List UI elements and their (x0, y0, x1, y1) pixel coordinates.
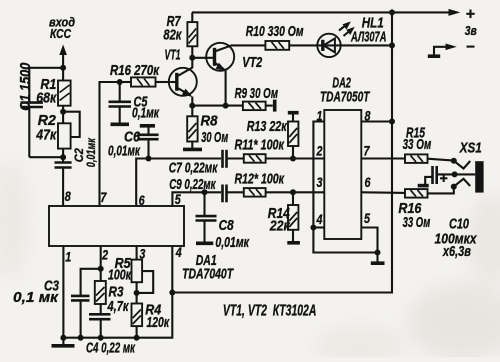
wire DA2 pin 6 to R16 (361, 191, 405, 194)
node B junction (60, 154, 66, 160)
svg-text:АЛ307А: АЛ307А (350, 29, 386, 45)
label C8 0,01mk (215, 218, 249, 251)
plus sign (466, 10, 474, 19)
node DA2 pin4 junction (310, 225, 316, 231)
resistor R3 (95, 281, 106, 314)
resistor R2 (58, 112, 71, 158)
svg-text:КСС: КСС (50, 26, 71, 41)
label C10 value (435, 217, 478, 260)
input label (49, 15, 75, 42)
minus terminal (428, 44, 475, 57)
node pin5 rail junction (375, 250, 381, 256)
label C2 0,01mk (74, 137, 98, 167)
svg-text:120к: 120к (147, 315, 170, 331)
svg-text:R13 22к: R13 22к (247, 119, 287, 135)
label R2 47k (35, 113, 56, 144)
svg-text:TDA7040T: TDA7040T (182, 267, 234, 283)
node R16/C5 junction (117, 79, 123, 85)
wire node A to C1 branch (29, 68, 63, 102)
node R1/R2 junction (60, 109, 66, 115)
R5 tap wire (137, 271, 154, 293)
node C3 rail junction (78, 335, 84, 341)
wire pin4 to bottom rail (313, 228, 377, 253)
resistor R5 (132, 246, 143, 304)
label R1 68k (36, 77, 57, 107)
IC DA2 box (324, 110, 361, 239)
svg-text:R3: R3 (109, 284, 124, 300)
node C8 junction (202, 189, 208, 195)
label R8 30 Om (201, 114, 229, 147)
R2 tap wire (63, 112, 80, 137)
svg-text:4: 4 (316, 211, 323, 227)
resistor R9 (243, 102, 273, 111)
jack tip contact spring (454, 161, 470, 169)
wire DA1 pin 5 to C9 (172, 192, 221, 206)
svg-text:0,1 мк: 0,1 мк (13, 290, 59, 306)
capacitor C2 (55, 157, 72, 206)
svg-text:4,7к: 4,7к (107, 299, 129, 315)
input arrow (59, 45, 67, 68)
svg-text:1: 1 (65, 249, 71, 265)
wire supply vertical (172, 12, 392, 292)
node jack ring contact (451, 184, 457, 190)
node C3 tap junction (98, 266, 104, 272)
capacitor C1 (21, 103, 43, 158)
resistor R13 (288, 113, 298, 159)
label DA1 (182, 253, 234, 283)
node R13 junction (290, 156, 296, 162)
resistor R7 (187, 12, 197, 57)
ground R13 (288, 111, 299, 115)
svg-text:6: 6 (365, 174, 371, 190)
svg-text:R8: R8 (201, 114, 219, 130)
bottom rail (63, 246, 172, 338)
ground C10 (418, 184, 429, 188)
svg-text:С9 0,22мк: С9 0,22мк (169, 177, 216, 193)
ground main (52, 338, 75, 346)
resistor R8 (187, 106, 197, 148)
svg-text:4: 4 (175, 244, 182, 260)
svg-text:6: 6 (139, 192, 145, 208)
svg-text:82к: 82к (163, 28, 181, 44)
resistor R1 (58, 68, 71, 112)
capacitor C4 (89, 314, 111, 337)
node pin4 long wire junction (169, 290, 175, 296)
svg-text:С10: С10 (449, 217, 469, 233)
label C6 0,01mk (108, 130, 141, 160)
svg-text:С8: С8 (219, 218, 235, 234)
node jack sleeve junction (452, 171, 458, 177)
svg-text:5: 5 (175, 191, 181, 207)
node jack tip contact (451, 158, 457, 164)
label C5 0,1mk (132, 95, 159, 122)
svg-text:0,01мк: 0,01мк (215, 235, 249, 251)
ground R14 (287, 241, 300, 245)
svg-text:33 Ом: 33 Ом (403, 137, 432, 153)
node R4 rail junction (134, 335, 140, 341)
node rail/supply junction (389, 9, 395, 15)
capacitor C6 (137, 126, 158, 159)
wire emitter rail (192, 105, 243, 107)
jack XS1 body (475, 161, 483, 192)
svg-text:47к: 47к (35, 128, 56, 144)
ground DA2 (371, 253, 385, 264)
svg-text:XS1: XS1 (459, 140, 482, 156)
svg-text:R10 330 Ом: R10 330 Ом (246, 24, 304, 40)
ground C8 (196, 242, 213, 246)
ground C6 (140, 124, 155, 128)
node VT1 emitter junction (189, 103, 195, 109)
svg-text:7: 7 (364, 143, 371, 159)
ground C5 (111, 123, 130, 127)
wire C6 node to C7 (149, 157, 222, 159)
LED HL1 (317, 22, 392, 58)
svg-text:30 Ом: 30 Ом (201, 130, 228, 146)
ground R9 (273, 100, 277, 112)
capacitor C10 (425, 166, 475, 185)
node LED junction (389, 42, 395, 48)
svg-text:3: 3 (317, 174, 323, 190)
svg-text:VT1, VT2 КТ3102А: VT1, VT2 КТ3102А (223, 303, 317, 320)
svg-text:8: 8 (65, 188, 71, 204)
plus sign C10 (440, 175, 447, 182)
node rail pin1 junction (60, 335, 66, 341)
capacitor C8 (196, 192, 217, 242)
top supply rail (192, 11, 451, 13)
resistor R12 (244, 188, 324, 197)
label R15 33 Om (403, 126, 432, 153)
wire DA2 pin 5 (361, 228, 377, 253)
svg-text:100к: 100к (108, 267, 131, 283)
svg-text:33 Ом: 33 Ом (403, 215, 431, 231)
resistor R15 (405, 154, 454, 163)
label DA2 (320, 76, 370, 106)
svg-text:С7 0,22мк: С7 0,22мк (169, 161, 218, 177)
wire C1 bottom to node B (29, 156, 63, 158)
svg-text:3в: 3в (465, 23, 477, 38)
svg-text:68к: 68к (36, 91, 57, 107)
svg-text:R16 270к: R16 270к (110, 63, 160, 79)
jack ring contact spring (454, 179, 470, 187)
svg-text:2: 2 (316, 143, 323, 159)
label C3 0,1 mk (13, 279, 59, 307)
svg-text:С4 0,22 мк: С4 0,22 мк (86, 341, 135, 357)
resistor R16 270k (120, 77, 171, 86)
capacitor C3 (71, 269, 101, 338)
node pin8/supply junction (389, 119, 395, 125)
svg-text:R12* 100к: R12* 100к (235, 172, 285, 188)
resistor R4 (132, 304, 143, 338)
capacitor C9 (223, 185, 244, 203)
label R4 120k (145, 303, 169, 331)
ground R8 (183, 148, 202, 152)
svg-text:TDA7050T: TDA7050T (320, 90, 370, 106)
svg-text:С1 1500: С1 1500 (18, 63, 34, 111)
node VT1 collector junction (189, 55, 195, 61)
svg-text:0,01мк: 0,01мк (108, 144, 140, 160)
svg-text:VT2: VT2 (242, 55, 262, 71)
resistor R14 (288, 192, 298, 241)
svg-text:С2: С2 (74, 148, 86, 163)
wire C6 node to DA1 pin 6 (136, 159, 148, 207)
capacitor C5 (109, 82, 132, 123)
label R5 100k (108, 256, 131, 283)
svg-text:7: 7 (100, 189, 107, 205)
svg-text:22к: 22к (269, 219, 290, 235)
svg-text:R11* 100к: R11* 100к (235, 137, 285, 153)
wire DA2 pin 4 (313, 226, 324, 228)
transistor VT1 (169, 58, 197, 106)
label R3 4,7k (107, 284, 129, 315)
label R7 82k (163, 14, 181, 44)
svg-text:R9 30 Ом: R9 30 Ом (235, 86, 279, 102)
node A junction (60, 65, 66, 71)
svg-text:0,01мк: 0,01мк (86, 137, 98, 167)
svg-text:2: 2 (101, 247, 108, 263)
wire DA2 pin 8 (361, 120, 392, 122)
svg-text:5: 5 (364, 210, 370, 226)
svg-text:0,1мк: 0,1мк (132, 105, 159, 121)
node R5/R4 junction (134, 290, 140, 296)
wire DA1 pin 7 riser (100, 82, 120, 206)
label R16 33 Om (398, 201, 430, 231)
wire DA2 pin 7 to R15 (361, 157, 405, 159)
transistor VT2 (192, 43, 265, 106)
label R14 22k (268, 206, 291, 235)
IC DA1 box (49, 206, 184, 246)
svg-text:VT1: VT1 (165, 48, 181, 64)
node C4 rail junction (98, 335, 104, 341)
node R14 junction (290, 189, 296, 195)
node C6 junction (146, 156, 152, 162)
svg-text:х6,3в: х6,3в (442, 244, 471, 260)
resistor R10 (265, 41, 317, 50)
capacitor C7 (223, 150, 244, 168)
resistor R16 33 Om (405, 187, 454, 198)
wire DA1 pin 1 to rail (62, 246, 64, 338)
wire DA1 pin 2 (100, 246, 102, 281)
plus terminal arrow (449, 9, 461, 16)
node VT2 emitter junction (223, 103, 229, 109)
resistor R11 (244, 154, 324, 163)
wire DA2 pin 1 (313, 122, 324, 228)
